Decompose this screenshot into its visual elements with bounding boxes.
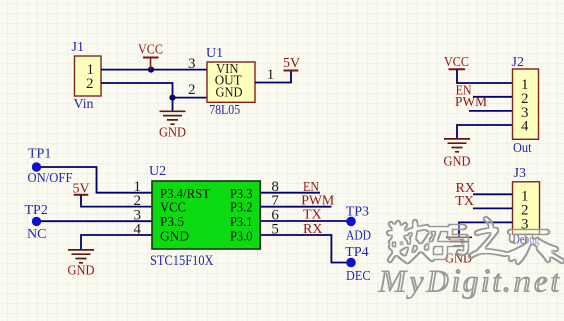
ground GND (under J2) bbox=[444, 139, 471, 170]
watermark 数码之家 bbox=[389, 219, 562, 262]
wire U2.7 net PWM bbox=[260, 206, 331, 208]
U2 pin number 7 bbox=[271, 193, 279, 209]
junction GND node bbox=[169, 95, 175, 101]
wire net RX to J3.1 bbox=[473, 193, 513, 195]
wire GND to J2.4 bbox=[457, 125, 513, 138]
svg-text:J3: J3 bbox=[514, 166, 526, 181]
wire VCC to J2.1 bbox=[457, 70, 513, 83]
svg-text:MyDigit.net: MyDigit.net bbox=[377, 264, 561, 300]
wire GND to J3.3 bbox=[459, 222, 513, 236]
U2 pin number 6 bbox=[271, 208, 279, 224]
svg-text:VCC: VCC bbox=[160, 201, 186, 216]
svg-text:2: 2 bbox=[86, 76, 94, 92]
power 5V (at U1 output) bbox=[283, 56, 300, 71]
svg-text:NC: NC bbox=[27, 227, 46, 242]
connector J3 bbox=[513, 166, 540, 234]
svg-text:J1: J1 bbox=[72, 40, 84, 55]
svg-text:RX: RX bbox=[303, 222, 322, 237]
wire GND to U2 pin4 bbox=[81, 235, 152, 249]
ground GND (under 5V, left) bbox=[68, 250, 95, 279]
power VCC (at J2) bbox=[444, 55, 469, 70]
watermark MyDigit.net bbox=[377, 264, 561, 300]
svg-text:VCC: VCC bbox=[444, 55, 469, 70]
svg-text:TX: TX bbox=[303, 208, 322, 223]
svg-text:TP1: TP1 bbox=[28, 147, 51, 162]
U1 pin number 1 bbox=[267, 67, 275, 83]
J1 pin 2 bbox=[86, 76, 94, 92]
svg-text:GND: GND bbox=[160, 229, 189, 244]
ground GND (under J3) bbox=[445, 237, 472, 266]
J1 pin 1 bbox=[87, 62, 95, 78]
wire J1.1 to U1.VIN bbox=[101, 69, 207, 71]
svg-text:ADD: ADD bbox=[346, 228, 371, 243]
wire U2.5 net RX to TP4 bbox=[260, 235, 347, 263]
svg-text:78L05: 78L05 bbox=[209, 103, 240, 118]
wire net EN to J2.2 bbox=[473, 96, 513, 98]
wire TP2 to U2 pin3 bbox=[41, 220, 152, 222]
test point TP1 bbox=[28, 147, 73, 186]
svg-text:DEC: DEC bbox=[346, 269, 371, 284]
svg-text:GND: GND bbox=[159, 126, 186, 141]
net label EN (J2) bbox=[456, 84, 472, 99]
svg-text:TX: TX bbox=[455, 194, 474, 209]
wire U2.6 net TX to TP3 bbox=[260, 220, 347, 222]
svg-text:5V: 5V bbox=[283, 56, 300, 71]
connector J1 bbox=[72, 40, 102, 96]
svg-text:P3.4/RST: P3.4/RST bbox=[160, 187, 210, 202]
svg-text:U2: U2 bbox=[149, 164, 166, 179]
svg-text:Out: Out bbox=[513, 141, 532, 156]
svg-text:STC15F10X: STC15F10X bbox=[150, 253, 214, 269]
net label PWM (J2) bbox=[455, 95, 488, 110]
regulator U1 bbox=[206, 46, 255, 102]
wire U2.8 net EN bbox=[260, 192, 320, 194]
U2 pin number 1 bbox=[134, 179, 142, 195]
svg-text:4: 4 bbox=[521, 119, 529, 135]
test point TP4 bbox=[345, 245, 370, 284]
U1 pin number 3 bbox=[188, 56, 196, 72]
svg-text:P3.5: P3.5 bbox=[160, 215, 184, 230]
svg-text:3: 3 bbox=[188, 56, 196, 72]
wire 5V to U2 pin2 bbox=[81, 195, 152, 207]
svg-text:1: 1 bbox=[267, 67, 275, 83]
svg-text:P3.1: P3.1 bbox=[230, 215, 253, 230]
svg-text:PWM: PWM bbox=[455, 95, 488, 110]
MCU U2 bbox=[149, 164, 260, 249]
svg-text:PWM: PWM bbox=[301, 193, 335, 208]
U2 value label STC15F10X bbox=[150, 253, 214, 269]
junction VCC node bbox=[148, 67, 154, 73]
U2 pin number 8 bbox=[271, 179, 279, 195]
svg-text:U1: U1 bbox=[206, 46, 223, 61]
net label RX (J3) bbox=[456, 181, 475, 196]
J3 value label Debug bbox=[513, 233, 540, 248]
J1 value label Vin bbox=[74, 97, 94, 112]
ground GND (under U1) bbox=[159, 98, 186, 141]
svg-text:Vin: Vin bbox=[74, 97, 94, 112]
U2 pin number 5 bbox=[271, 222, 279, 238]
svg-text:4: 4 bbox=[134, 222, 142, 238]
svg-text:TP4: TP4 bbox=[345, 245, 368, 260]
wire U1.OUT to 5V bbox=[255, 72, 291, 83]
wire net TX to J3.2 bbox=[473, 207, 513, 209]
power 5V (at U2 VCC) bbox=[73, 181, 90, 196]
test point TP3 bbox=[346, 204, 371, 243]
svg-text:GND: GND bbox=[444, 155, 471, 170]
U2 pin number 2 bbox=[134, 193, 142, 209]
U2 pin number 3 bbox=[134, 208, 142, 224]
net label RX bbox=[303, 222, 322, 237]
svg-text:P3.0: P3.0 bbox=[230, 229, 253, 244]
wire TP1 to U2 pin1 bbox=[40, 167, 152, 193]
svg-text:GND: GND bbox=[216, 86, 243, 101]
wire net PWM to J2.3 bbox=[469, 110, 513, 112]
svg-text:VCC: VCC bbox=[138, 43, 163, 58]
J2 value label Out bbox=[513, 141, 532, 156]
net label PWM bbox=[301, 193, 335, 208]
svg-text:P3.3: P3.3 bbox=[230, 187, 253, 202]
svg-text:ON/OFF: ON/OFF bbox=[28, 171, 73, 186]
net label TX (J3) bbox=[455, 194, 474, 209]
U2 pin number 4 bbox=[134, 222, 142, 238]
wire J1.2 to U1.GND bbox=[101, 83, 207, 98]
net label TX bbox=[303, 208, 322, 223]
svg-text:P3.2: P3.2 bbox=[230, 201, 253, 216]
connector J2 bbox=[512, 55, 539, 139]
net label EN bbox=[303, 180, 319, 195]
svg-text:J2: J2 bbox=[512, 55, 524, 70]
svg-text:2: 2 bbox=[188, 82, 196, 98]
svg-text:GND: GND bbox=[68, 264, 95, 279]
power VCC bbox=[138, 43, 163, 70]
U1 pin number 2 bbox=[188, 82, 196, 98]
svg-text:TP2: TP2 bbox=[25, 203, 48, 218]
test point TP2 bbox=[25, 203, 48, 242]
U1 value label 78L05 bbox=[209, 103, 240, 118]
